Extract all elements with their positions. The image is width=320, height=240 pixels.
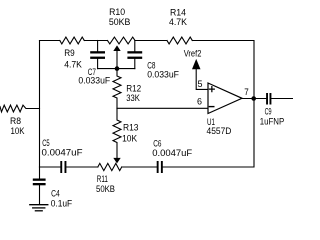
pot R10 wiper arrow [113,45,120,68]
resistor R13 [113,108,139,158]
svg-text:4557D: 4557D [207,126,232,137]
junction dot (wiper node) [115,66,120,71]
svg-text:5: 5 [198,79,203,90]
svg-text:R13: R13 [123,123,139,134]
wire between R9 and R10 [84,40,107,42]
svg-text:R9: R9 [64,48,75,59]
wire left vertical rail [39,41,41,168]
svg-text:0.0047uF: 0.0047uF [152,148,192,159]
capacitor C7 [78,41,110,87]
svg-text:6: 6 [197,97,202,108]
wire linking C7 and C8 bottoms [98,68,135,70]
wire pin 6 net [117,107,208,109]
wire between R10 and R14 [135,40,167,42]
capacitor C9 [260,93,293,128]
resistor R9 [60,37,85,70]
svg-text:4.7K: 4.7K [169,17,188,28]
svg-text:0.0047uF: 0.0047uF [42,148,83,159]
svg-text:50KB: 50KB [109,17,130,28]
svg-text:10K: 10K [11,126,25,137]
svg-text:10K: 10K [122,134,138,145]
capacitor C6 [152,138,192,173]
ground [30,205,48,211]
wire between C5 and R11 [66,166,97,168]
pot R11 wiper arrow [113,158,120,164]
svg-text:7: 7 [244,87,249,98]
op-amp U1 [207,83,243,137]
capacitor C5 [42,138,83,173]
svg-text:1uFNP: 1uFNP [260,117,285,128]
wire right vertical to bottom rail [163,99,254,168]
resistor R12 [113,69,141,109]
svg-text:50KB: 50KB [96,184,115,195]
wire top rail left segment [40,40,60,42]
resistor R10 (potentiometer body) [108,7,136,44]
resistor R8 [0,105,40,137]
wire bottom rail left segment [40,166,61,168]
voltage reference Vref2 (arrow) [184,48,208,89]
resistor R14 [167,8,192,44]
svg-text:33K: 33K [126,93,140,104]
svg-text:0.033uF: 0.033uF [78,76,110,87]
wire top rail right segment down to node 7 [192,41,254,99]
capacitor C4 [33,167,73,209]
svg-text:0.1uF: 0.1uF [51,198,73,209]
svg-text:4.7K: 4.7K [64,59,82,70]
svg-text:Vref2: Vref2 [184,48,202,59]
wire op-amp output to node 7 and C9 [242,98,266,100]
capacitor C8 [127,41,179,81]
wire between R11 and C6 [122,166,157,168]
svg-text:0.033uF: 0.033uF [147,70,179,81]
resistor R11 (potentiometer body) [96,163,122,195]
junction dot node 7 [251,96,256,101]
